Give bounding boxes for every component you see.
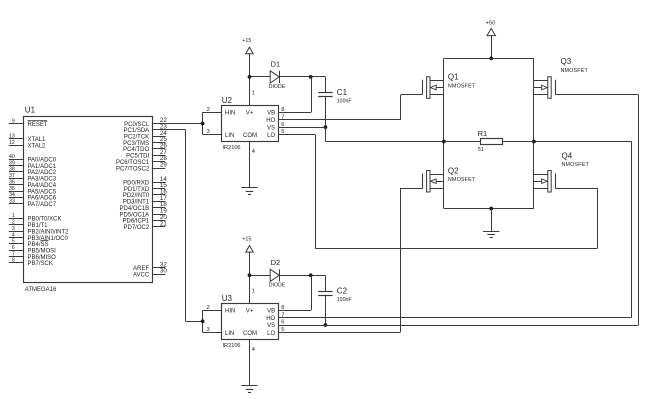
svg-text:9: 9 — [12, 118, 15, 124]
svg-text:PC6/TOSC1: PC6/TOSC1 — [116, 160, 150, 166]
U3 pin 2 HIN stub — [203, 305, 222, 311]
svg-text:PD6/ICP1: PD6/ICP1 — [123, 219, 150, 225]
svg-text:VS: VS — [267, 125, 275, 131]
svg-text:VB: VB — [267, 308, 275, 314]
svg-text:100nF: 100nF — [337, 297, 352, 303]
node bottom rail ground junction dot — [489, 207, 493, 211]
svg-text:3: 3 — [12, 226, 15, 232]
node U2 V+ junction dot — [248, 75, 252, 79]
svg-text:6: 6 — [281, 320, 284, 326]
svg-text:PA2/ADC2: PA2/ADC2 — [28, 170, 57, 176]
svg-text:PD1/TXD: PD1/TXD — [124, 187, 150, 193]
svg-text:PD5/OC1A: PD5/OC1A — [120, 212, 150, 218]
svg-text:1: 1 — [252, 91, 255, 97]
svg-text:+15: +15 — [242, 236, 251, 242]
svg-text:Q3: Q3 — [561, 57, 572, 66]
svg-text:PB2/AIN0/INT2: PB2/AIN0/INT2 — [28, 229, 70, 235]
U1 pin 2 PB1/T1 — [9, 220, 48, 230]
U1 pin 14 PD0/RXD — [123, 176, 167, 187]
svg-text:21: 21 — [160, 220, 167, 227]
svg-text:PB0/T0/XCK: PB0/T0/XCK — [28, 217, 62, 223]
wire Q4 gate riser — [597, 188, 599, 248]
svg-text:NMOSFET: NMOSFET — [448, 83, 476, 89]
capacitor C2 100nF — [311, 275, 352, 325]
svg-text:HO: HO — [266, 118, 275, 124]
svg-text:VS: VS — [267, 323, 275, 329]
svg-text:2: 2 — [207, 107, 210, 113]
power +50 supply for bridge — [486, 21, 496, 59]
svg-text:HIN: HIN — [225, 110, 235, 116]
svg-text:NMOSFET: NMOSFET — [448, 177, 476, 183]
U2 input junction wire — [202, 112, 204, 134]
svg-text:8: 8 — [281, 107, 284, 113]
svg-text:ATMEGA16: ATMEGA16 — [25, 287, 57, 293]
svg-text:V+: V+ — [246, 110, 254, 116]
U2 input junction dot — [201, 122, 205, 126]
U1 pin 19 PD5/OC1A — [120, 208, 168, 219]
svg-text:PC3/TMS: PC3/TMS — [123, 141, 149, 147]
svg-text:51: 51 — [478, 147, 484, 153]
U1 pin 32 AREF — [133, 261, 167, 272]
wire U3 HO to right bridge midpoint — [291, 142, 632, 318]
wire U3 LO to Q2 gate — [291, 188, 401, 332]
svg-text:PC2/TCK: PC2/TCK — [124, 135, 149, 141]
svg-text:3: 3 — [207, 327, 210, 333]
gate driver U2 IR2106 body — [222, 96, 279, 151]
svg-text:PA5/ADC5: PA5/ADC5 — [28, 189, 57, 195]
svg-text:PA3/ADC3: PA3/ADC3 — [28, 177, 57, 183]
svg-text:PA4/ADC4: PA4/ADC4 — [28, 183, 57, 189]
svg-text:PB3/AIN1/OC0: PB3/AIN1/OC0 — [28, 236, 69, 242]
svg-text:12: 12 — [9, 140, 15, 146]
svg-text:PD2/INT0: PD2/INT0 — [123, 193, 150, 199]
svg-text:PB4/SS: PB4/SS — [28, 242, 49, 248]
U3 pin 6 VS stub — [279, 320, 291, 326]
svg-text:PC5/TDI: PC5/TDI — [126, 154, 149, 160]
svg-text:2: 2 — [207, 305, 210, 311]
svg-text:+50: +50 — [486, 21, 496, 27]
U1 pin 17 PD3/INT1 — [123, 195, 167, 206]
transistor Q1 NMOSFET — [401, 72, 476, 98]
transistor Q4 NMOSFET — [534, 151, 598, 192]
U1 pin 6 PB5/MOSI — [9, 245, 56, 255]
ground below bridge — [483, 232, 499, 238]
svg-text:COM: COM — [243, 331, 257, 337]
gate driver U3 IR2106 body — [222, 294, 279, 349]
svg-text:39: 39 — [9, 160, 15, 166]
U1 pin 12 XTAL2 — [9, 140, 46, 150]
power +15 supply for U3 — [242, 236, 253, 275]
svg-text:6: 6 — [281, 122, 284, 128]
U1 pin 7 PB6/MISO — [9, 251, 56, 260]
svg-text:PA7/ADC7: PA7/ADC7 — [28, 202, 57, 208]
wire U2 COM to ground — [249, 142, 251, 188]
svg-text:Q2: Q2 — [448, 166, 459, 175]
U1 pin 33 PA7/ADC7 — [9, 199, 57, 209]
U3 pin 5 LO stub — [279, 327, 291, 333]
ground below U2 — [241, 188, 257, 195]
U1 pin 23 PC1/SDA — [124, 124, 168, 135]
U1 pin 16 PD2/INT0 — [123, 189, 167, 200]
U2 pin 5 LO stub — [279, 129, 291, 135]
svg-text:34: 34 — [9, 192, 15, 198]
svg-text:V+: V+ — [246, 308, 254, 314]
U1 pin 5 PB4/SS — [9, 239, 49, 249]
U3 pin 8 VB stub — [279, 305, 291, 311]
svg-text:RESET: RESET — [28, 122, 48, 128]
wire bridge top rail — [444, 58, 534, 60]
U1 pin 25 PC3/TMS — [123, 136, 167, 147]
resistor R1 — [478, 129, 503, 153]
svg-text:36: 36 — [9, 179, 15, 185]
svg-text:6: 6 — [12, 245, 15, 251]
svg-text:38: 38 — [9, 167, 15, 173]
svg-text:PB6/MISO: PB6/MISO — [28, 255, 57, 261]
U1 pin 4 PB3/AIN1/OC0 — [9, 232, 69, 242]
svg-text:COM: COM — [243, 133, 257, 139]
svg-text:13: 13 — [9, 134, 15, 140]
svg-text:PC7/TOSC2: PC7/TOSC2 — [116, 166, 150, 172]
wire U2 VS to left bridge midpoint — [291, 127, 444, 141]
U2 pin 8 VB stub — [279, 107, 291, 113]
svg-text:PB5/MOSI: PB5/MOSI — [28, 249, 57, 255]
U1 pin 1 PB0/T0/XCK — [9, 213, 62, 223]
wire left midpoint to right midpoint through R1 — [444, 141, 534, 143]
svg-text:VB: VB — [267, 110, 275, 116]
svg-text:29: 29 — [160, 162, 167, 169]
U1 pin 36 PA4/ADC4 — [9, 179, 57, 189]
svg-text:U2: U2 — [222, 96, 233, 105]
U1 pin 8 PB7/SCK — [9, 258, 53, 268]
svg-text:HO: HO — [266, 316, 275, 322]
wire U2 VB to bootstrap node — [291, 77, 312, 113]
transistor Q3 NMOSFET — [534, 57, 638, 98]
U2 pin 2 HIN stub — [203, 107, 222, 113]
U3 pin 4 COM stub — [252, 347, 256, 353]
node +50 rail junction dot — [489, 57, 493, 61]
svg-text:8: 8 — [12, 258, 15, 264]
wire U3 COM to ground — [249, 340, 251, 386]
wire U2 HO to Q1 gate — [291, 95, 401, 120]
U1 pin 15 PD1/TXD — [124, 182, 167, 193]
svg-text:IR2106: IR2106 — [223, 145, 241, 151]
wire bridge right rail — [533, 58, 535, 208]
svg-text:DIODE: DIODE — [269, 283, 286, 289]
svg-text:PD3/INT1: PD3/INT1 — [123, 200, 150, 206]
svg-text:D1: D1 — [271, 60, 281, 69]
wire bridge bottom rail — [444, 208, 534, 210]
svg-text:XTAL2: XTAL2 — [28, 143, 47, 149]
svg-text:7: 7 — [12, 251, 15, 257]
wire bridge left rail — [443, 58, 445, 208]
node D2 cathode junction dot — [309, 273, 313, 277]
svg-text:Q4: Q4 — [562, 151, 573, 160]
wire U3 VB to bootstrap node — [291, 275, 312, 310]
U2 pin 7 HO stub — [279, 114, 291, 120]
svg-text:LIN: LIN — [225, 133, 234, 139]
svg-text:XTAL1: XTAL1 — [28, 137, 47, 143]
svg-text:U3: U3 — [222, 294, 233, 303]
svg-text:5: 5 — [281, 327, 284, 333]
svg-text:5: 5 — [12, 239, 15, 245]
svg-text:4: 4 — [12, 232, 15, 238]
svg-text:HIN: HIN — [225, 308, 235, 314]
svg-text:IR2106: IR2106 — [223, 343, 241, 349]
U1 pin 34 PA6/ADC6 — [9, 192, 57, 202]
svg-text:5: 5 — [281, 129, 284, 135]
node right midpoint junction dot — [532, 140, 536, 144]
U1 pin 28 PC6/TOSC1 — [116, 155, 167, 166]
U3 input junction wire — [202, 310, 204, 332]
U1 pin 30 AVCC — [133, 268, 167, 279]
svg-text:35: 35 — [9, 186, 15, 192]
microcontroller U1 ATMEGA16 body — [24, 106, 153, 293]
svg-text:PD4/OC1B: PD4/OC1B — [120, 206, 150, 212]
svg-text:PC4/TDO: PC4/TDO — [123, 147, 149, 153]
U1 pin 13 XTAL1 — [9, 134, 46, 144]
svg-text:+15: +15 — [242, 38, 251, 44]
capacitor C1 100nF — [311, 77, 352, 128]
node C1 to VS junction dot — [324, 125, 328, 129]
U2 pin 1 V+ stub — [250, 77, 255, 106]
svg-text:100nF: 100nF — [337, 99, 352, 105]
U1 pin 21 PD7/OC2 — [124, 220, 168, 231]
U2 pin 4 COM stub — [252, 149, 256, 155]
svg-text:PC1/SDA: PC1/SDA — [124, 128, 150, 134]
svg-text:LO: LO — [267, 133, 275, 139]
svg-text:NMOSFET: NMOSFET — [562, 162, 590, 168]
svg-text:PD7/OC2: PD7/OC2 — [124, 225, 150, 231]
diode D2 — [250, 258, 311, 288]
svg-text:R1: R1 — [478, 129, 488, 138]
svg-text:3: 3 — [207, 129, 210, 135]
svg-text:PA1/ADC1: PA1/ADC1 — [28, 164, 57, 170]
svg-text:7: 7 — [281, 114, 284, 120]
U2 pin 6 VS stub — [279, 122, 291, 128]
svg-text:PB7/SCK: PB7/SCK — [28, 261, 53, 267]
svg-text:37: 37 — [9, 173, 15, 179]
svg-text:C1: C1 — [337, 88, 348, 97]
transistor Q2 NMOSFET — [400, 166, 476, 192]
svg-text:PD0/RXD: PD0/RXD — [123, 181, 150, 187]
node U3 V+ junction dot — [248, 273, 252, 277]
svg-text:2: 2 — [12, 220, 15, 226]
svg-text:Q1: Q1 — [448, 72, 459, 81]
svg-text:AVCC: AVCC — [133, 272, 150, 278]
svg-text:40: 40 — [9, 154, 15, 160]
diode D1 — [250, 60, 311, 90]
U1 pin 18 PD4/OC1B — [120, 201, 168, 212]
svg-text:33: 33 — [9, 199, 15, 205]
wire U1 PC1/SDA to U3 input node — [165, 130, 202, 322]
ground below U3 — [241, 386, 257, 393]
svg-text:7: 7 — [281, 312, 284, 318]
svg-text:PA6/ADC6: PA6/ADC6 — [28, 196, 57, 202]
U3 input junction dot — [201, 319, 205, 323]
svg-text:1: 1 — [252, 289, 255, 295]
wire U1 PC0/SCL to U2 input node — [165, 123, 202, 125]
U1 pin 9 RESET — [9, 118, 48, 128]
wire bottom rail to ground — [491, 209, 493, 232]
U1 pin 26 PC4/TDO — [123, 143, 167, 154]
U1 pin 39 PA1/ADC1 — [9, 160, 57, 170]
node C2 to VS junction dot — [324, 323, 328, 327]
svg-text:DIODE: DIODE — [269, 84, 286, 90]
U1 pin 27 PC5/TDI — [126, 149, 167, 160]
svg-text:LIN: LIN — [225, 331, 234, 337]
wire U2 LO to Q4 gate — [291, 135, 598, 249]
U3 pin 3 LIN stub — [203, 327, 222, 333]
svg-text:30: 30 — [160, 268, 167, 275]
svg-text:NMOSFET: NMOSFET — [561, 68, 589, 74]
wire U3 VS to Q3 gate — [291, 95, 639, 326]
svg-text:PC0/SCL: PC0/SCL — [124, 122, 150, 128]
svg-text:PB1/T1: PB1/T1 — [28, 223, 49, 229]
U1 pin 24 PC2/TCK — [124, 130, 167, 141]
U1 pin 3 PB2/AIN0/INT2 — [9, 226, 69, 236]
U1 pin 22 PC0/SCL — [124, 117, 167, 128]
U3 pin 7 HO stub — [279, 312, 291, 318]
svg-text:LO: LO — [267, 331, 275, 337]
svg-text:D2: D2 — [271, 258, 281, 267]
power +15 supply for U2 — [242, 38, 253, 77]
node left midpoint junction dot — [442, 140, 446, 144]
U1 pin 37 PA3/ADC3 — [9, 173, 57, 183]
U1 pin 35 PA5/ADC5 — [9, 186, 57, 196]
svg-text:C2: C2 — [337, 287, 348, 296]
U3 pin 1 V+ stub — [250, 275, 255, 304]
U1 pin 40 PA0/ADC0 — [9, 154, 57, 164]
svg-text:AREF: AREF — [133, 266, 149, 272]
svg-text:PA0/ADC0: PA0/ADC0 — [28, 158, 57, 164]
svg-text:8: 8 — [281, 305, 284, 311]
svg-text:U1: U1 — [25, 106, 36, 115]
node D1 cathode junction dot — [309, 75, 313, 79]
U1 pin 29 PC7/TOSC2 — [116, 162, 167, 173]
U1 pin 20 PD6/ICP1 — [123, 214, 168, 225]
U1 pin 38 PA2/ADC2 — [9, 167, 57, 177]
svg-text:1: 1 — [12, 213, 15, 219]
U2 pin 3 LIN stub — [203, 129, 222, 135]
